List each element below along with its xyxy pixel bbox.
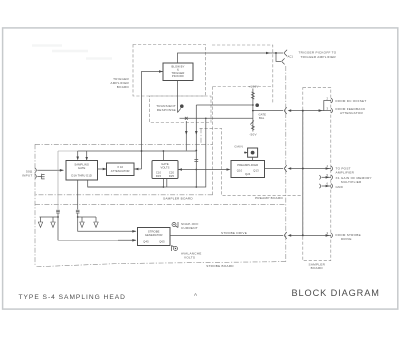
svg-text:TYPE S-4 SAMPLING HEAD: TYPE S-4 SAMPLING HEAD: [19, 294, 126, 301]
svg-text:BOARD: BOARD: [117, 85, 130, 89]
svg-text:AC1: AC1: [288, 55, 294, 59]
junction: gate volts bottom bus: [163, 186, 165, 188]
wire: to strobe pin: [303, 234, 331, 236]
svg-text:Q10: Q10: [237, 169, 243, 173]
svg-text:STROBE BOARD: STROBE BOARD: [206, 264, 234, 268]
off-board arrow: [95, 217, 97, 222]
wire: gate drop to strobe generator upper input: [78, 213, 136, 231]
ground: input shell: [37, 175, 41, 177]
svg-text:TRIGGER PICKOFF TO: TRIGGER PICKOFF TO: [299, 51, 337, 55]
junction: bias at pickoff bus: [195, 150, 197, 152]
trigger amplifier board dashed boundary: [133, 45, 206, 97]
wire: drop to sampler bus: [185, 121, 187, 151]
connector: board edge mate arrow: [288, 109, 292, 112]
svg-text:TRIGGER AMPLIFIER: TRIGGER AMPLIFIER: [301, 55, 337, 59]
interconnect strip dashed boundary: [303, 88, 331, 261]
block: gate volts: [152, 161, 178, 179]
wire: to pin 2 and pin 3: [303, 110, 331, 112]
junction: feedback at bus: [141, 150, 143, 152]
svg-text:BLOCK DIAGRAM: BLOCK DIAGRAM: [292, 288, 380, 298]
potentiometer: gate bal adjust: [255, 103, 259, 107]
connector: pickoff lower pin: [276, 53, 285, 64]
block: strobe generator Q45 Q65: [138, 228, 171, 246]
feedthrough terminals: [76, 210, 80, 213]
wire: termination branch: [58, 150, 78, 152]
potentiometer: transient response adjust: [180, 104, 184, 108]
svg-text:FROM DC OFFSET: FROM DC OFFSET: [336, 99, 367, 103]
svg-text:PREAMP BOARD: PREAMP BOARD: [255, 196, 283, 200]
potentiometer: snap-off current adjust: [172, 223, 176, 227]
feedthrough terminals: [56, 210, 60, 213]
wire: stub into gate top right: [86, 151, 88, 161]
block: X10 attenuator: [107, 163, 135, 176]
junction: bias at gate volts bus: [195, 186, 197, 188]
svg-text:INPUT: INPUT: [22, 174, 33, 178]
pin 6: [319, 184, 320, 188]
wire: blow by output down to transient response pot: [177, 81, 179, 113]
wire: gain pot to preamp top: [252, 157, 254, 160]
transient response dashed boundary: [150, 96, 212, 123]
sampler board dashed right edge: [212, 87, 214, 195]
sampling head dashed left edge: [34, 144, 36, 266]
svg-text:-50V: -50V: [249, 133, 257, 137]
wire: pickoff bus: [78, 150, 197, 152]
svg-text:GND: GND: [336, 185, 344, 189]
svg-text:Q13: Q13: [253, 169, 259, 173]
svg-text:X 10: X 10: [117, 165, 123, 169]
svg-text:PREAMPLIFIER: PREAMPLIFIER: [237, 163, 258, 167]
svg-text:GENERATOR: GENERATOR: [145, 233, 163, 237]
svg-text:VOLTS: VOLTS: [160, 165, 169, 169]
wire: transient response to gate bal pot: [180, 117, 253, 119]
wire: feedback to offset pins: [253, 107, 287, 114]
wire: stub into gate top left: [77, 151, 79, 158]
svg-text:A: A: [194, 292, 197, 297]
wire: input termination drop: [57, 151, 59, 210]
off-board arrow: [81, 217, 83, 222]
wire: termination to strobe generator lower input: [57, 213, 59, 240]
svg-text:CURRENT: CURRENT: [181, 226, 198, 230]
wire: strobe drive: [170, 234, 303, 236]
svg-text:GATE: GATE: [78, 166, 86, 170]
wire: gate volts to preamp input: [178, 169, 230, 171]
svg-text:AMPLIFIER: AMPLIFIER: [336, 171, 355, 175]
svg-text:D1A THRU D1D: D1A THRU D1D: [71, 174, 92, 178]
block: blow by & trigger pickoff: [163, 63, 193, 81]
wire: sampling gate to gate volts bottom bus: [88, 180, 164, 187]
junction: pickoff node: [275, 52, 277, 54]
sampler board dashed boundary jog: [200, 128, 202, 144]
svg-text:DRIVE: DRIVE: [341, 237, 352, 241]
wire: pickoff output to connector: [178, 53, 277, 63]
connector: trigger pickoff pin: [276, 50, 287, 57]
strobe board dashed top edge: [35, 203, 286, 205]
svg-text:+100V: +100V: [248, 84, 259, 88]
wire: gate volts bottom stubs: [163, 179, 166, 188]
wire: feedback into X10 right: [134, 168, 142, 170]
preamp board dashed boundary: [200, 128, 303, 195]
junction: termination bracket left: [57, 216, 59, 218]
junction: output at interconnect: [302, 168, 304, 170]
wire: bracket to off-board arrows: [40, 216, 59, 218]
block: sampling gate D1A thru D1D: [66, 161, 98, 181]
pin 5: [319, 175, 320, 179]
junction: bias at preamp input wire: [195, 169, 197, 171]
svg-text:STROBE DRIVE: STROBE DRIVE: [221, 231, 247, 235]
svg-text:GAIN: GAIN: [234, 144, 243, 148]
sampler board dashed bottom edge: [35, 194, 213, 196]
junction: feedback node: [302, 110, 304, 112]
wire: sampling gate to X10: [98, 168, 107, 170]
svg-text:D15: D15: [156, 174, 162, 178]
wire: bus to gate volts top: [162, 151, 164, 161]
svg-text:Q24: Q24: [245, 172, 251, 176]
junction: strobe drive at interconnect: [302, 234, 304, 236]
wire: bracket to off-board arrows: [78, 216, 96, 218]
sampler board dashed top edge: [35, 143, 213, 145]
svg-text:MULTIPLIER: MULTIPLIER: [341, 180, 362, 184]
connector: strobe drive board edge: [284, 232, 287, 239]
wire: bias vertical through capacitor: [195, 105, 197, 187]
wire: signal feed to blow by input: [142, 72, 164, 170]
svg-text:VOLTS: VOLTS: [184, 256, 195, 260]
block: preamplifier: [231, 161, 265, 178]
off-board arrow: [40, 217, 42, 222]
wire: sampling gate bottom drop: [77, 180, 79, 210]
strobe board dashed right edge: [285, 66, 287, 262]
trigger pickoff channel dashed boundary: [212, 45, 273, 103]
wire: interconnect vertical: [302, 111, 304, 236]
svg-text:SAMPLER BOARD: SAMPLER BOARD: [163, 197, 193, 201]
svg-text:ATTENUATOR: ATTENUATOR: [111, 169, 130, 173]
off-board arrow: [52, 217, 54, 222]
wire: preamp output: [265, 165, 287, 172]
capacitor: [194, 159, 198, 161]
wire: gate bal return to gate volts bus: [88, 118, 206, 187]
arrow into strobe generator lower input: [132, 239, 136, 242]
svg-text:ATTENUATOR: ATTENUATOR: [340, 111, 363, 115]
svg-text:Q65: Q65: [159, 240, 165, 244]
resistor: gate bal divider: [252, 89, 254, 132]
potentiometer: avalanche volts adjust: [174, 247, 178, 251]
svg-text:BOARD: BOARD: [311, 266, 324, 270]
wire: input to sampling gate: [37, 169, 63, 171]
arrow into strobe generator upper input: [132, 230, 136, 233]
svg-text:D25: D25: [169, 174, 175, 178]
sampler board dashed upper edge: [213, 86, 273, 88]
junction: termination bracket right: [77, 216, 79, 218]
test point: x mark: [185, 117, 188, 120]
junction: gate volts stub on bus: [163, 150, 165, 152]
svg-text:PICKOFF: PICKOFF: [172, 74, 185, 78]
connector: input jack: [35, 168, 37, 173]
svg-text:BAL: BAL: [259, 116, 265, 120]
wire: bias feed to gate bal top: [196, 104, 253, 106]
svg-text:RESPONSE: RESPONSE: [157, 108, 176, 112]
svg-text:Q45: Q45: [143, 240, 149, 244]
strobe board dashed bottom edge: [35, 262, 286, 267]
